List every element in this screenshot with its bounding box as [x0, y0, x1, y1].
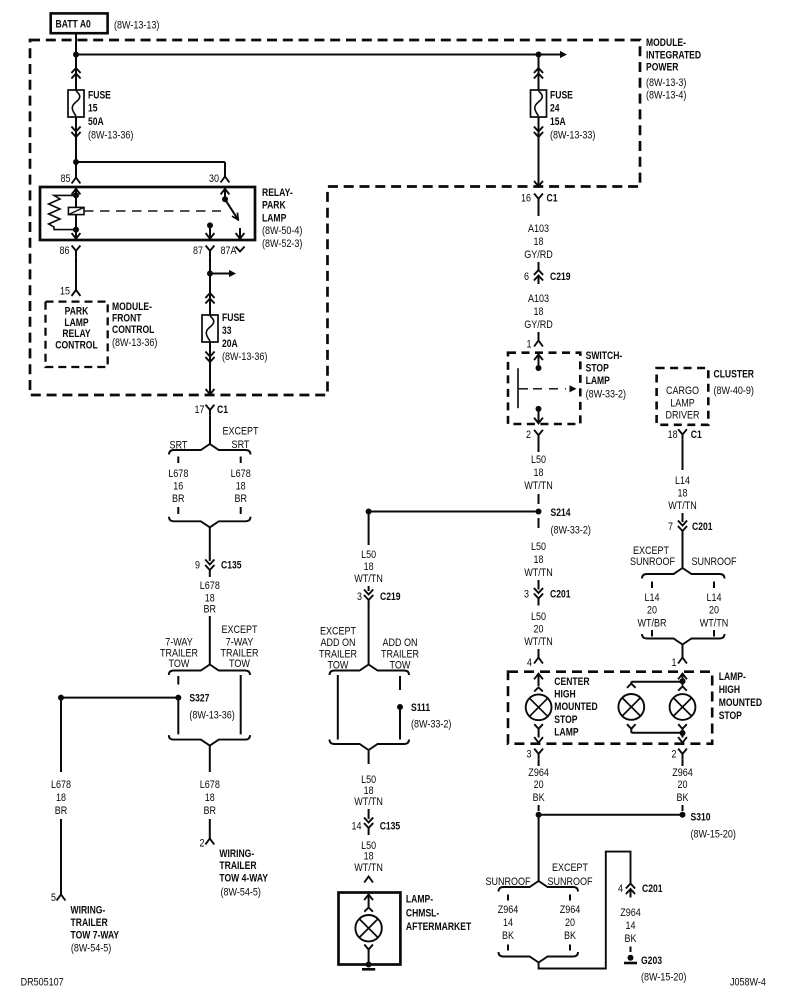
wire [538, 332, 540, 341]
svg-text:18: 18 [364, 851, 374, 863]
wire bus continuation arrow [539, 54, 565, 56]
pin arrow into MIP edge [534, 181, 543, 187]
svg-text:C219: C219 [380, 591, 401, 603]
svg-text:WT/TN: WT/TN [524, 567, 553, 579]
svg-text:20: 20 [647, 605, 657, 617]
svg-text:L50: L50 [531, 611, 546, 623]
svg-text:BR: BR [234, 493, 247, 505]
svg-text:BK: BK [677, 792, 690, 804]
svg-text:WT/TN: WT/TN [668, 500, 697, 512]
svg-text:BATT A0: BATT A0 [56, 19, 91, 31]
svg-text:2: 2 [672, 749, 677, 761]
wire C1-17 down [209, 415, 211, 444]
bulb left [526, 694, 552, 720]
splice S310 left node [536, 812, 542, 818]
svg-text:87: 87 [193, 245, 203, 257]
connector C201 pin 4 [626, 884, 635, 889]
svg-text:S214: S214 [551, 507, 572, 519]
wire branch stub [651, 630, 653, 637]
svg-text:S327: S327 [189, 693, 209, 705]
connector C201 pin 3 [534, 588, 543, 593]
wire branch stub [177, 676, 179, 685]
wire [368, 586, 370, 591]
svg-text:WT/TN: WT/TN [524, 636, 553, 648]
svg-text:CONTROL: CONTROL [112, 324, 155, 336]
svg-text:(8W-13-3): (8W-13-3) [646, 77, 686, 89]
svg-text:6: 6 [524, 271, 529, 283]
svg-text:20: 20 [709, 605, 719, 617]
svg-text:18: 18 [534, 306, 544, 318]
wire [538, 518, 540, 528]
svg-text:9: 9 [195, 560, 200, 572]
svg-text:86: 86 [60, 245, 70, 257]
svg-text:16: 16 [173, 481, 183, 493]
wire S310 link [539, 814, 683, 816]
connector C1 pin 16 [534, 194, 543, 199]
svg-text:WT/TN: WT/TN [700, 618, 729, 630]
wire [538, 805, 540, 811]
wire pin 87 down [209, 256, 211, 273]
pin 87A connector chevron [235, 247, 244, 252]
wire down to ground split [538, 815, 540, 881]
svg-text:CENTER: CENTER [554, 676, 589, 688]
svg-text:L50: L50 [531, 454, 546, 466]
svg-text:5: 5 [51, 892, 56, 904]
wire S327 down [177, 698, 179, 735]
wire [538, 204, 540, 216]
fuse F33 20A [209, 274, 211, 316]
svg-text:L14: L14 [675, 475, 690, 487]
svg-text:WT/TN: WT/TN [524, 480, 553, 492]
junction node fuse15 out [73, 159, 79, 165]
option merge brace [642, 634, 725, 645]
switch plunger bar [517, 368, 519, 408]
svg-text:18: 18 [534, 554, 544, 566]
svg-text:20: 20 [565, 917, 575, 929]
wire [538, 441, 540, 453]
svg-text:S310: S310 [691, 812, 711, 824]
splice S310 [680, 812, 686, 818]
svg-text:L678: L678 [200, 779, 220, 791]
svg-text:TRAILER: TRAILER [219, 860, 256, 872]
svg-text:ADD ON: ADD ON [382, 637, 417, 649]
svg-text:BR: BR [172, 493, 185, 505]
switch actuator dashed arrow [518, 388, 528, 390]
svg-text:WT/TN: WT/TN [354, 573, 383, 585]
bulb centre bottom terminal [627, 724, 636, 729]
option merge brace [169, 735, 250, 746]
svg-text:WT/TN: WT/TN [354, 796, 383, 808]
svg-text:3: 3 [357, 591, 362, 603]
connector C135 pin 9 [205, 560, 214, 565]
svg-text:18: 18 [364, 561, 374, 573]
option merge brace [169, 517, 251, 528]
svg-text:FUSE: FUSE [550, 90, 573, 102]
svg-text:1: 1 [527, 339, 532, 351]
wire branch stub [713, 582, 715, 589]
wire add-on branch stub [399, 676, 401, 690]
svg-text:15A: 15A [550, 116, 566, 128]
wire main B+ bus [76, 54, 539, 56]
svg-text:C135: C135 [221, 560, 242, 572]
svg-text:(8W-13-36): (8W-13-36) [222, 351, 267, 363]
svg-text:87A: 87A [221, 245, 238, 257]
svg-text:ADD ON: ADD ON [320, 637, 355, 649]
svg-text:LAMP: LAMP [586, 375, 610, 387]
svg-text:(8W-50-4): (8W-50-4) [262, 225, 302, 237]
module U3 CLUSTER dashed box [657, 368, 709, 425]
relay armature [225, 199, 238, 220]
connector C219 pin 3 [364, 590, 373, 595]
wire to relay pin 85 [75, 162, 77, 178]
svg-text:(8W-15-20): (8W-15-20) [641, 972, 686, 984]
svg-text:LAMP: LAMP [262, 213, 286, 225]
wire merge down [209, 746, 211, 772]
svg-text:MODULE-: MODULE- [112, 301, 152, 313]
bulb bottom terminal [364, 945, 373, 950]
bulb right [670, 694, 696, 720]
svg-text:C1: C1 [547, 193, 558, 205]
svg-text:AFTERMARKET: AFTERMARKET [406, 921, 472, 933]
svg-text:2: 2 [200, 838, 205, 850]
wire [538, 494, 540, 504]
svg-text:FRONT: FRONT [112, 312, 142, 324]
switch pin 1 connector [534, 341, 543, 347]
svg-text:18: 18 [534, 236, 544, 248]
wire to sunroof split [682, 538, 684, 568]
connector C1 pin 18 [678, 429, 687, 434]
wire bottom link [631, 732, 682, 734]
module-integrated power dashed boundary [30, 40, 640, 395]
svg-text:18: 18 [236, 481, 246, 493]
wire [682, 645, 684, 658]
svg-text:(8W-13-4): (8W-13-4) [646, 90, 686, 102]
svg-text:(8W-13-33): (8W-13-33) [550, 129, 595, 141]
svg-text:18: 18 [678, 488, 688, 500]
svg-text:17: 17 [195, 404, 205, 416]
wire branch stub [507, 895, 509, 901]
svg-text:4: 4 [527, 657, 532, 669]
splice S214 [536, 509, 542, 515]
splice S111 [397, 704, 403, 710]
junction node 87 feed [207, 271, 213, 277]
connector C135 pin 14 [364, 818, 373, 823]
wire except-7-way branch [240, 675, 242, 734]
svg-text:G203: G203 [641, 955, 662, 967]
bulb centre [618, 694, 644, 720]
svg-text:S111: S111 [411, 702, 430, 714]
svg-text:HIGH: HIGH [719, 684, 740, 696]
svg-text:MOUNTED: MOUNTED [554, 701, 597, 713]
svg-text:EXCEPT: EXCEPT [222, 426, 258, 438]
wire pin 86 to module-front control [75, 256, 77, 290]
wire [538, 759, 540, 766]
wire [538, 649, 540, 658]
option split brace add-on trailer tow [330, 665, 410, 676]
svg-text:(8W-54-5): (8W-54-5) [221, 887, 261, 899]
svg-text:Z964: Z964 [528, 767, 549, 779]
svg-text:GY/RD: GY/RD [524, 249, 553, 261]
wire branch arrow [210, 273, 231, 275]
svg-text:A103: A103 [528, 293, 549, 305]
svg-text:FUSE: FUSE [222, 312, 245, 324]
svg-text:DRIVER: DRIVER [665, 410, 699, 422]
svg-text:(8W-15-20): (8W-15-20) [691, 829, 736, 841]
connector C1 pin 17 [206, 405, 215, 410]
relay contact 87A stub [239, 228, 241, 240]
option split brace ground [499, 881, 579, 892]
svg-text:L678: L678 [231, 468, 251, 480]
switch S1 SWITCH-STOP LAMP dashed box [508, 353, 580, 424]
svg-text:DR505107: DR505107 [21, 977, 64, 989]
svg-text:L678: L678 [51, 779, 71, 791]
relay actuator dashed link [84, 210, 221, 212]
svg-text:C219: C219 [550, 271, 571, 283]
svg-text:STOP: STOP [554, 714, 577, 726]
svg-text:LAMP: LAMP [554, 726, 578, 738]
svg-text:C201: C201 [642, 883, 663, 895]
wire [538, 580, 540, 590]
svg-text:20A: 20A [222, 338, 238, 350]
svg-text:SRT: SRT [170, 440, 188, 452]
wire EXCEPT SRT branch stub [240, 457, 242, 464]
connector pin 2 [205, 839, 214, 845]
svg-text:BR: BR [204, 604, 217, 616]
wire [368, 750, 370, 764]
wire to add-on split [368, 607, 370, 665]
svg-text:(8W-33-2): (8W-33-2) [551, 525, 591, 537]
svg-text:SRT: SRT [232, 439, 250, 451]
svg-text:SWITCH-: SWITCH- [586, 350, 623, 362]
svg-text:WIRING-: WIRING- [219, 848, 254, 860]
armature arrowhead [232, 213, 238, 220]
svg-text:TOW 4-WAY: TOW 4-WAY [219, 873, 268, 885]
wire branch stub [507, 945, 509, 951]
wire EXCEPT SRT branch stub [240, 507, 242, 514]
svg-text:CONTROL: CONTROL [55, 340, 98, 352]
svg-text:20: 20 [678, 779, 688, 791]
svg-text:14: 14 [352, 821, 362, 833]
svg-text:85: 85 [61, 173, 71, 185]
lamp pin 3 connector [534, 749, 543, 754]
switch internal contact top [538, 354, 540, 368]
wire branch stub [569, 945, 571, 951]
svg-text:SUNROOF: SUNROOF [630, 556, 675, 568]
connector C219 pin 6 [534, 270, 543, 275]
svg-text:WT/BR: WT/BR [637, 618, 666, 630]
battery feed B+ label box BATT A0 [51, 13, 108, 33]
wire branch stub [569, 895, 571, 901]
svg-text:(8W-54-5): (8W-54-5) [71, 943, 111, 955]
bulb aftermarket [355, 915, 381, 941]
svg-text:EXCEPT: EXCEPT [320, 626, 356, 638]
svg-text:LAMP-: LAMP- [406, 894, 433, 906]
svg-text:18: 18 [534, 467, 544, 479]
wire left leg down [60, 698, 62, 772]
wire from S214 branch down [368, 512, 370, 546]
wire to relay pin 30 [76, 161, 225, 163]
aftermarket bulb feed [368, 894, 370, 907]
pin 30 connector [221, 177, 230, 183]
svg-text:CHMSL-: CHMSL- [406, 907, 440, 919]
svg-text:50A: 50A [88, 116, 104, 128]
svg-text:15: 15 [88, 103, 98, 115]
relay coil element box [68, 207, 84, 214]
svg-text:PARK: PARK [65, 305, 89, 317]
svg-text:24: 24 [550, 103, 560, 115]
svg-text:Z964: Z964 [672, 767, 693, 779]
wire branch stub [651, 582, 653, 589]
svg-text:INTEGRATED: INTEGRATED [646, 50, 701, 62]
wire to trailer tow split [209, 616, 211, 665]
wire branch stub [713, 630, 715, 637]
svg-text:CLUSTER: CLUSTER [714, 369, 755, 381]
svg-text:(8W-52-3): (8W-52-3) [262, 238, 302, 250]
junction node [366, 509, 372, 515]
ground G203 [628, 955, 634, 961]
svg-text:BR: BR [204, 805, 217, 817]
svg-text:1: 1 [672, 657, 677, 669]
wire [682, 513, 684, 522]
lamp pin connector [364, 877, 373, 883]
svg-text:Z964: Z964 [560, 904, 581, 916]
svg-text:33: 33 [222, 325, 232, 337]
wire [682, 440, 684, 470]
svg-text:CARGO: CARGO [666, 385, 699, 397]
svg-text:MODULE-: MODULE- [646, 37, 686, 49]
svg-text:TOW: TOW [229, 658, 250, 670]
option split brace SRT [169, 444, 251, 455]
wire [538, 262, 540, 270]
svg-text:C1: C1 [217, 404, 228, 416]
wire SRT branch stub [177, 457, 179, 464]
fuse F15 50A [75, 55, 77, 91]
relay coil branch [75, 187, 77, 195]
svg-text:20: 20 [534, 624, 544, 636]
wire jog to C201 pin 4 [539, 852, 631, 969]
bulb left bottom terminal [534, 724, 543, 729]
pin 86 connector [72, 246, 81, 251]
svg-text:STOP: STOP [586, 363, 609, 375]
svg-text:C201: C201 [692, 521, 713, 533]
option merge brace [330, 740, 410, 751]
junction node [58, 695, 64, 701]
svg-text:BR: BR [55, 805, 68, 817]
svg-text:LAMP: LAMP [64, 317, 88, 329]
relay contact 87 [207, 222, 213, 228]
junction at fuse 24 feed [536, 52, 542, 58]
lamp DS2 LAMP-CHMSL-AFTERMARKET box [339, 893, 401, 965]
lamp internal wiring right pair [682, 673, 684, 681]
svg-text:L50: L50 [531, 541, 546, 553]
svg-text:L678: L678 [200, 580, 220, 592]
wire top link [631, 681, 682, 683]
wire to C135 [209, 527, 211, 561]
svg-text:HIGH: HIGH [554, 689, 575, 701]
option split brace sunroof [642, 568, 725, 579]
bulb right bottom terminal [678, 724, 687, 729]
svg-text:18: 18 [668, 429, 678, 441]
wire [682, 759, 684, 766]
svg-text:2: 2 [526, 429, 531, 441]
svg-text:BK: BK [564, 930, 577, 942]
svg-text:TRAILER: TRAILER [71, 917, 108, 929]
relay switch common pin 30 [224, 187, 226, 199]
svg-text:14: 14 [626, 920, 636, 932]
svg-text:WIRING-: WIRING- [71, 905, 106, 917]
wire [630, 947, 632, 953]
svg-text:LAMP-: LAMP- [719, 671, 746, 683]
fuse F24 15A [538, 55, 540, 91]
lamp pin 2 connector [678, 749, 687, 754]
wire to 4-way connector [209, 819, 211, 839]
svg-text:L50: L50 [361, 549, 376, 561]
svg-text:(8W-13-36): (8W-13-36) [88, 129, 133, 141]
svg-text:RELAY: RELAY [62, 328, 91, 340]
svg-text:(8W-13-36): (8W-13-36) [189, 710, 234, 722]
svg-text:Z964: Z964 [498, 904, 519, 916]
wire drop to pin 30 [224, 162, 226, 177]
option split brace trailer tow [169, 665, 250, 676]
svg-text:C135: C135 [380, 821, 401, 833]
svg-text:MOUNTED: MOUNTED [719, 697, 762, 709]
svg-text:4: 4 [618, 883, 623, 895]
svg-text:3: 3 [527, 749, 532, 761]
svg-text:J058W-4: J058W-4 [730, 977, 766, 989]
wire [368, 809, 370, 819]
svg-text:18: 18 [205, 792, 215, 804]
svg-text:L678: L678 [168, 468, 188, 480]
svg-text:(8W-33-2): (8W-33-2) [586, 389, 626, 401]
svg-text:POWER: POWER [646, 62, 678, 74]
svg-text:TOW: TOW [169, 658, 190, 670]
svg-text:(8W-40-9): (8W-40-9) [714, 385, 754, 397]
wire S327 to 7-way connector [61, 697, 178, 699]
pin arrow into MIP edge [206, 389, 215, 395]
svg-text:14: 14 [503, 917, 513, 929]
pin 85 connector [72, 178, 81, 184]
svg-text:18: 18 [56, 792, 66, 804]
svg-text:C201: C201 [550, 589, 571, 601]
svg-text:30: 30 [209, 173, 219, 185]
wire [682, 805, 684, 811]
svg-text:(8W-13-36): (8W-13-36) [112, 337, 157, 349]
svg-text:STOP: STOP [719, 710, 742, 722]
svg-text:SUNROOF: SUNROOF [691, 556, 736, 568]
svg-text:(8W-13-13): (8W-13-13) [114, 19, 159, 31]
pin 15 connector [72, 290, 81, 296]
svg-text:7: 7 [668, 521, 673, 533]
lamp DS1 LAMP-HIGH MOUNTED STOP dashed box [508, 672, 712, 744]
svg-text:16: 16 [521, 193, 531, 205]
ground node at case [366, 962, 372, 968]
connector pin 5 [57, 895, 66, 901]
junction node top [680, 678, 686, 684]
option merge brace [499, 952, 579, 963]
svg-text:BK: BK [625, 933, 638, 945]
splice S327 [175, 695, 181, 701]
svg-text:WT/TN: WT/TN [354, 862, 383, 874]
junction node bottom [680, 730, 686, 736]
svg-text:A103: A103 [528, 223, 549, 235]
svg-text:20: 20 [534, 779, 544, 791]
svg-text:PARK: PARK [262, 200, 286, 212]
bulb right top terminal [678, 687, 687, 691]
wire except-add-on branch [337, 675, 339, 740]
wire to 7-way connector [60, 819, 62, 895]
switch pin 2 connector [534, 430, 543, 435]
svg-text:GY/RD: GY/RD [524, 319, 553, 331]
